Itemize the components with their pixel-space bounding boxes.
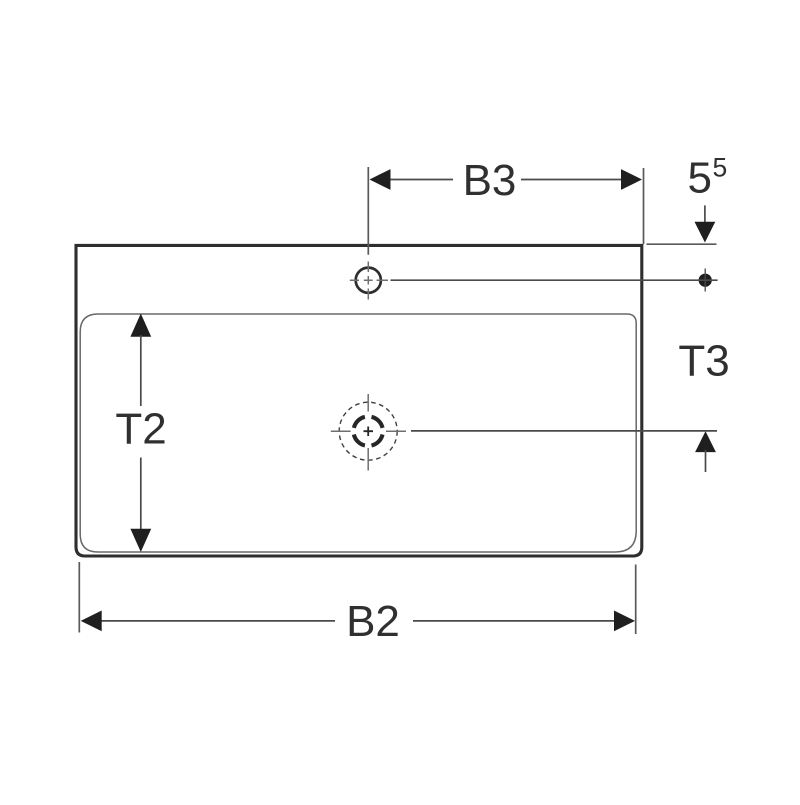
inner basin rim [80,314,636,552]
dimension 5.5 arrow tail [704,205,706,224]
drain center cross [364,427,374,437]
dimension B2 extension line left [78,562,80,633]
faucet hole crosshair horizontal [350,279,388,281]
dimension T3 arrow tail [705,450,707,472]
drain thick circle [354,417,383,446]
drain crosshair vertical [367,394,369,471]
dimension 5.5 end dot [699,274,712,287]
drain crosshair horizontal [331,430,406,432]
washbasin outer outline [76,245,642,556]
dimension B3 arrowhead right [621,169,642,190]
drain dashed circle [339,402,397,460]
dimension B3 line [380,179,632,181]
svg-text:B2: B2 [346,597,400,646]
dimension T2 arrowhead down [130,529,151,552]
drain reference line [411,430,717,432]
dimension T3 arrowhead up [695,431,716,452]
dimension B2 extension line right [635,565,637,635]
dimension T2 line upper [140,335,142,406]
dimension 5.5 arrowhead down [695,222,716,243]
dimension 5.5 top edge extension line [647,243,717,245]
dimension B3 arrowhead left [370,169,391,190]
dimension T2 line lower [140,458,142,534]
svg-text:B3: B3 [463,156,517,205]
dimension B2 arrowhead right [614,611,635,632]
faucet hole [356,268,381,293]
dimension B2 line [91,620,625,622]
svg-text:5: 5 [688,153,712,202]
svg-text:T2: T2 [115,405,166,454]
faucet to dot reference line [391,279,718,281]
faucet hole crosshair vertical [367,262,369,300]
dimension B3 extension line right [643,168,645,244]
dimension T2 arrowhead up [130,314,151,337]
dimension 5.5 dot tick [704,269,706,292]
dimension B3 extension line left [367,167,369,255]
dimension B2 arrowhead left [81,611,102,632]
svg-text:5: 5 [713,153,728,183]
svg-text:T3: T3 [678,337,729,386]
